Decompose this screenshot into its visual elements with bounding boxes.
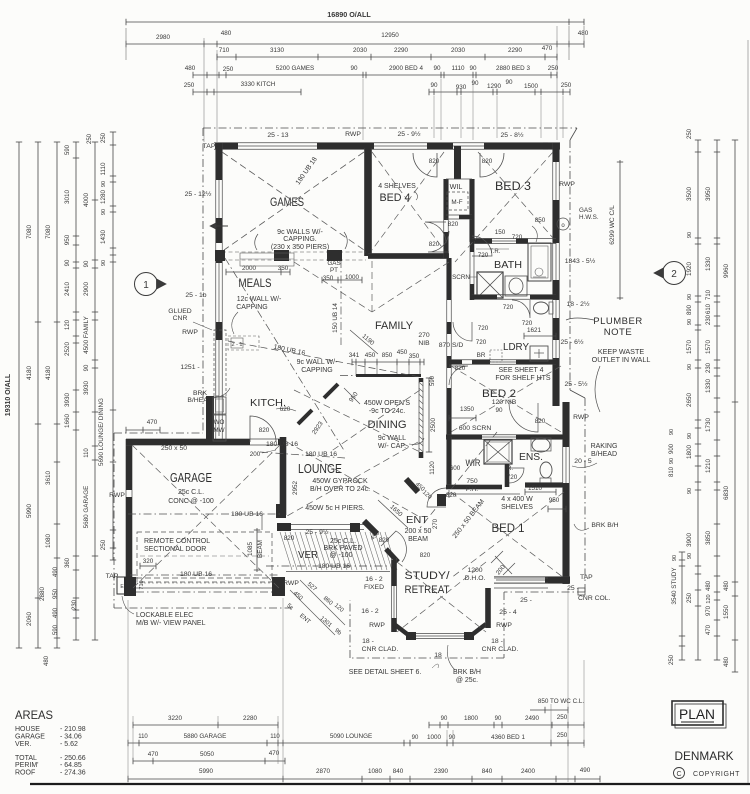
svg-text:9c WALL: 9c WALL (378, 435, 406, 442)
svg-text:19310 O/ALL: 19310 O/ALL (5, 373, 12, 416)
svg-text:25 - 8½: 25 - 8½ (500, 131, 523, 139)
svg-text:FIXED: FIXED (364, 584, 384, 591)
svg-text:PERIM': PERIM' (15, 762, 39, 769)
games diagonals (222, 152, 364, 250)
ent door arc (381, 531, 406, 562)
svg-text:2 - 1: 2 - 1 (231, 342, 242, 348)
svg-text:110: 110 (270, 734, 280, 740)
svg-text:3900: 3900 (686, 533, 693, 548)
svg-text:600: 600 (450, 465, 461, 472)
dim chain right 3540 STUDY 90 / 250 (681, 552, 683, 660)
svg-text:- 64.85: - 64.85 (60, 762, 82, 769)
svg-text:2980: 2980 (156, 34, 171, 41)
svg-text:SEE SHEET 4: SEE SHEET 4 (498, 367, 543, 374)
svg-text:820: 820 (455, 365, 466, 372)
svg-text:590: 590 (53, 624, 59, 635)
svg-text:2500: 2500 (430, 418, 437, 433)
svg-text:LDRY: LDRY (503, 342, 529, 353)
svg-text:870 S/D: 870 S/D (439, 342, 464, 349)
svg-text:90: 90 (669, 458, 675, 464)
dim 1650 rot (378, 500, 408, 528)
ver slab hatch (280, 532, 397, 570)
svg-text:1120: 1120 (429, 461, 436, 475)
svg-text:950: 950 (549, 497, 560, 504)
bed1 robe line (449, 493, 520, 495)
dim chain right 9960/6830/1550/480/480 (734, 140, 736, 672)
svg-text:610: 610 (706, 303, 712, 314)
svg-text:230: 230 (706, 314, 712, 325)
svg-text:490: 490 (53, 566, 59, 577)
svg-text:RWP: RWP (345, 131, 361, 138)
svg-text:350: 350 (323, 275, 334, 282)
ens door (509, 468, 524, 483)
svg-text:720: 720 (507, 474, 518, 481)
svg-text:820: 820 (448, 221, 459, 228)
ent pier lounge corner (364, 521, 377, 534)
svg-text:230: 230 (706, 362, 712, 373)
svg-text:810: 810 (669, 466, 675, 477)
svg-text:3010: 3010 (64, 190, 71, 205)
svg-text:1080: 1080 (368, 768, 383, 775)
svg-text:470: 470 (542, 45, 553, 52)
svg-text:250: 250 (100, 539, 107, 550)
dim bottom 110/5880 GARAGE/110/5090 LOUNGE/90/1000/90/4360 BED 1/250 (128, 742, 584, 744)
svg-text:840: 840 (393, 768, 404, 775)
svg-text:90: 90 (669, 429, 675, 435)
garage beam 180 UB 16 mid (128, 513, 281, 515)
svg-text:480: 480 (578, 30, 589, 37)
kitchen bench north (228, 336, 259, 350)
svg-text:25c C.L.: 25c C.L. (178, 489, 204, 496)
dim chain left 590/3010/950/90/2410/120/2520/3930/1660 (75, 142, 77, 640)
svg-text:710: 710 (706, 289, 712, 300)
dim 1621 (524, 335, 556, 337)
wall bed1 south (494, 576, 570, 578)
svg-text:VER: VER (298, 549, 318, 561)
svg-text:12950: 12950 (381, 32, 399, 39)
svg-text:ENT: ENT (406, 515, 428, 526)
svg-text:CNR CLAD.: CNR CLAD. (482, 646, 519, 653)
eaves outline (203, 127, 577, 129)
svg-text:820: 820 (429, 158, 440, 165)
svg-text:25 - 13: 25 - 13 (267, 132, 288, 139)
svg-text:25 - 1b: 25 - 1b (185, 292, 206, 299)
svg-text:180 UB 16: 180 UB 16 (180, 571, 212, 578)
svg-text:90: 90 (84, 364, 90, 371)
svg-text:3220: 3220 (168, 715, 183, 722)
svg-text:90: 90 (433, 65, 441, 72)
wall garage east (279, 437, 281, 515)
svg-text:90: 90 (505, 79, 513, 86)
svg-text:- 210.98: - 210.98 (60, 726, 86, 733)
family ceiling dashes (294, 262, 372, 312)
svg-text:2: 2 (671, 269, 677, 280)
svg-text:250: 250 (184, 82, 195, 89)
svg-text:620: 620 (280, 406, 291, 413)
svg-text:3500: 3500 (686, 187, 693, 202)
svg-text:REMOTE CONTROL: REMOTE CONTROL (144, 538, 210, 545)
svg-text:GARAGE: GARAGE (15, 734, 45, 741)
svg-text:90: 90 (84, 260, 90, 267)
svg-text:6830: 6830 (723, 486, 730, 501)
svg-text:12c WALL W/-: 12c WALL W/- (237, 296, 282, 303)
dim row 480/250/5200 GAMES/90/2900 BED 4/90/1110/90/2880 BED 3/250 (193, 74, 557, 76)
svg-text:1280: 1280 (100, 190, 107, 205)
lockable elec box (117, 577, 128, 594)
wc door (512, 300, 530, 318)
door bed3 top (480, 153, 504, 177)
svg-text:NOTE: NOTE (604, 327, 632, 338)
dim row 250/3330 KITCH and 90/930/90/1290/90/1500/250 (193, 91, 301, 93)
svg-text:230: 230 (72, 599, 78, 610)
svg-text:1800: 1800 (464, 715, 479, 722)
left wall arrow (210, 225, 228, 227)
svg-text:480: 480 (724, 656, 730, 667)
svg-text:850: 850 (382, 352, 393, 359)
svg-text:2650: 2650 (686, 393, 693, 408)
svg-text:2290: 2290 (508, 47, 523, 54)
wall wil west (443, 179, 445, 258)
svg-text:5880 GARAGE: 5880 GARAGE (184, 733, 227, 740)
svg-text:950: 950 (53, 588, 59, 599)
dining diagonals (294, 390, 420, 452)
svg-text:1330: 1330 (705, 379, 712, 394)
ldry door (453, 322, 472, 341)
svg-text:1: 1 (143, 280, 149, 291)
dim chain right 3950/1330/710/610/230/1570/230/1330/1730/1210/3850/480/120/970/470 (716, 140, 718, 660)
svg-text:-9c TO 24c.: -9c TO 24c. (369, 408, 405, 415)
svg-text:18 -: 18 - (362, 638, 374, 645)
svg-text:B/H OVER TO 24c.: B/H OVER TO 24c. (310, 486, 370, 493)
svg-text:90: 90 (687, 364, 693, 370)
svg-text:AREAS: AREAS (15, 708, 53, 722)
svg-text:25 -: 25 - (520, 597, 532, 604)
svg-text:1110: 1110 (451, 65, 465, 72)
dim bottom 470/5050/470 (133, 760, 285, 762)
wall study east (485, 588, 487, 628)
svg-text:450W GYPROCK: 450W GYPROCK (312, 478, 368, 485)
svg-text:VER.: VER. (15, 741, 31, 748)
wil m-f box (447, 192, 468, 210)
svg-text:90: 90 (65, 259, 71, 266)
svg-text:7080: 7080 (26, 225, 33, 240)
dim 470 garage top (126, 429, 160, 431)
svg-text:2520: 2520 (64, 342, 71, 357)
kitchen wo mw (213, 415, 226, 441)
svg-text:3850: 3850 (705, 531, 712, 546)
svg-text:2870: 2870 (316, 768, 331, 775)
svg-text:590: 590 (65, 144, 71, 155)
plan denmark title block (672, 701, 723, 725)
svg-text:ENS.: ENS. (519, 451, 543, 463)
wall exterior top (214, 142, 560, 144)
svg-text:490: 490 (580, 767, 591, 774)
svg-text:CAPPING.: CAPPING. (283, 236, 317, 243)
svg-text:1843 - 5½: 1843 - 5½ (565, 257, 596, 265)
svg-text:5200 GAMES: 5200 GAMES (276, 65, 315, 72)
svg-text:25c C.L.: 25c C.L. (330, 538, 356, 545)
wall bed3 south / bath north (472, 238, 556, 240)
lounge diagonals (287, 442, 418, 516)
svg-text:90: 90 (469, 65, 477, 72)
svg-text:20 - 5: 20 - 5 (574, 458, 592, 465)
door bed2 east (509, 403, 538, 432)
svg-text:1500: 1500 (524, 83, 539, 90)
svg-text:1080: 1080 (45, 534, 52, 549)
svg-text:4 x 400 W: 4 x 400 W (501, 496, 533, 503)
wall bath west (469, 241, 471, 300)
svg-text:90: 90 (687, 553, 693, 559)
svg-text:3610: 3610 (45, 471, 52, 486)
svg-text:SEE DETAIL SHEET 6.: SEE DETAIL SHEET 6. (349, 669, 422, 676)
svg-text:90: 90 (449, 735, 456, 741)
svg-text:90: 90 (350, 65, 358, 72)
svg-text:1085: 1085 (247, 542, 254, 557)
svg-text:BED 3: BED 3 (495, 181, 531, 193)
svg-text:DENMARK: DENMARK (675, 749, 734, 763)
svg-text:250: 250 (561, 82, 572, 89)
svg-text:490: 490 (53, 607, 59, 618)
ver edges (286, 571, 390, 573)
svg-text:2880 BED 3: 2880 BED 3 (496, 65, 530, 72)
wall wil bottom (446, 214, 472, 216)
dim chain right 250/3500/90/1920/90/890/90/1570/90/2650/90/900/810/90/3900/250 (697, 140, 699, 660)
svg-text:110: 110 (84, 448, 90, 458)
svg-text:90: 90 (412, 735, 419, 741)
ens shower (484, 440, 512, 464)
svg-text:120: 120 (706, 594, 712, 603)
svg-text:CONC @ -100: CONC @ -100 (168, 498, 214, 505)
svg-text:RWP: RWP (573, 414, 589, 421)
svg-text:BR: BR (477, 352, 486, 359)
wall lounge south (280, 524, 364, 526)
bath shower (477, 272, 503, 298)
svg-text:M-F: M-F (451, 199, 462, 206)
node 2 marker (663, 262, 686, 285)
svg-text:90: 90 (441, 716, 448, 722)
svg-text:9960: 9960 (723, 264, 730, 279)
svg-text:890: 890 (687, 304, 693, 315)
svg-text:150: 150 (495, 229, 506, 236)
svg-text:2280: 2280 (243, 715, 258, 722)
svg-text:720: 720 (478, 325, 489, 332)
svg-text:BATH: BATH (494, 259, 522, 271)
node 1 marker (135, 273, 158, 296)
svg-text:2952: 2952 (292, 481, 299, 496)
dim chain left 7080/4180/3610/1080/2880 (56, 142, 58, 648)
svg-text:BRK: BRK (193, 390, 207, 397)
svg-text:250: 250 (687, 128, 693, 139)
svg-text:180 UB 16: 180 UB 16 (318, 563, 350, 570)
ver beam 180 ub 16 (266, 565, 390, 567)
svg-text:- 5.62: - 5.62 (60, 741, 78, 748)
kitchen pantry box (213, 397, 226, 414)
beam 180 ub 16 shallow (228, 341, 420, 377)
dim 2000/350 meals (226, 271, 290, 273)
svg-text:1730: 1730 (705, 418, 712, 433)
svg-text:1110: 1110 (100, 162, 107, 176)
svg-text:5090 LOUNGE: 5090 LOUNGE (330, 733, 372, 740)
svg-text:5050: 5050 (200, 751, 215, 758)
wall study corners angled (394, 624, 411, 637)
svg-text:200 x 50: 200 x 50 (405, 528, 432, 535)
wall games/bed4 (364, 148, 366, 256)
svg-text:C: C (676, 771, 681, 778)
svg-text:720: 720 (478, 252, 489, 259)
svg-text:2400: 2400 (521, 768, 536, 775)
kitchen door garage (250, 416, 276, 442)
svg-text:RWP: RWP (559, 181, 575, 188)
svg-text:R.: R. (507, 466, 513, 472)
svg-text:PLUMBER: PLUMBER (593, 316, 642, 327)
svg-text:710: 710 (139, 580, 145, 589)
dim 6299 WC C/L vertical (619, 160, 621, 300)
svg-text:GAS: GAS (327, 260, 340, 267)
svg-text:2410: 2410 (64, 282, 71, 297)
svg-text:FAMILY: FAMILY (375, 320, 414, 332)
svg-text:LOCKABLE ELEC: LOCKABLE ELEC (136, 612, 193, 619)
svg-text:1920: 1920 (686, 262, 693, 277)
wall garage top (126, 438, 286, 440)
svg-text:25 -: 25 - (567, 585, 579, 592)
wall exterior right lower (562, 402, 564, 584)
wall games south pier line (222, 251, 366, 253)
svg-text:1330: 1330 (705, 257, 712, 272)
svg-text:270: 270 (433, 518, 439, 529)
svg-text:NIB: NIB (418, 340, 430, 347)
svg-text:2030: 2030 (451, 47, 466, 54)
svg-text:5690 LOUNGE/ DINING: 5690 LOUNGE/ DINING (98, 398, 105, 466)
svg-text:930: 930 (456, 84, 467, 91)
svg-text:1570: 1570 (705, 340, 712, 355)
svg-text:WO: WO (214, 419, 225, 426)
svg-text:25 - 5½: 25 - 5½ (564, 380, 587, 388)
svg-text:120: 120 (65, 319, 71, 330)
hall bed1 corner block (437, 494, 446, 506)
svg-text:1550: 1550 (723, 605, 730, 620)
garage diagonals (132, 445, 280, 589)
svg-text:- 250.66: - 250.66 (60, 755, 86, 762)
dim bottom 5990/2870/1080/840/2390/840/2400/490 (128, 778, 600, 780)
wall exterior left (215, 143, 217, 440)
svg-text:900: 900 (669, 443, 675, 454)
svg-text:3130: 3130 (270, 47, 285, 54)
svg-text:CNR COL.: CNR COL. (578, 595, 611, 602)
svg-text:CNR: CNR (173, 315, 188, 322)
svg-text:250: 250 (548, 65, 559, 72)
svg-text:450W 5c H PIERS.: 450W 5c H PIERS. (305, 505, 365, 512)
svg-text:90: 90 (101, 181, 107, 187)
svg-text:RWP: RWP (283, 580, 299, 587)
extension lines bottom (127, 600, 129, 782)
svg-text:3930: 3930 (64, 393, 71, 408)
svg-text:CNR CLAD.: CNR CLAD. (362, 646, 399, 653)
wall ens mid (504, 464, 506, 487)
svg-text:820: 820 (535, 418, 546, 425)
svg-text:450W OPEN'S: 450W OPEN'S (364, 400, 410, 407)
svg-text:RWP: RWP (369, 622, 385, 629)
svg-text:PLAN: PLAN (679, 706, 715, 722)
svg-text:W/- CAP.: W/- CAP. (378, 443, 406, 450)
svg-text:970: 970 (706, 605, 712, 616)
svg-text:BEAM: BEAM (408, 536, 428, 543)
svg-text:90: 90 (430, 82, 438, 89)
svg-text:5990: 5990 (26, 504, 33, 519)
svg-text:9c WALLS W/-: 9c WALLS W/- (277, 229, 323, 236)
wall garage west (125, 439, 127, 595)
beam 180 ub 16 lounge (260, 452, 345, 458)
svg-text:HOUSE: HOUSE (15, 726, 40, 733)
garage door opening lines (136, 577, 272, 579)
bath door (472, 236, 492, 256)
svg-text:4000: 4000 (83, 193, 90, 208)
svg-text:6299 WC C/L: 6299 WC C/L (609, 205, 616, 245)
svg-text:720: 720 (503, 304, 514, 311)
study diagonals (397, 562, 486, 632)
svg-text:1000: 1000 (427, 734, 442, 741)
svg-text:18 -: 18 - (491, 638, 503, 645)
wall garage south corners (124, 577, 136, 596)
dim chain left 4000/90/2900/4500 FAMILY/90/110/5680 GARAGE (94, 142, 96, 640)
wall wil east (469, 179, 471, 242)
svg-text:480: 480 (724, 580, 730, 591)
wall wil top (446, 178, 472, 180)
door bed4 lower (425, 222, 446, 243)
svg-text:5680 GARAGE: 5680 GARAGE (83, 486, 90, 529)
svg-text:250: 250 (223, 66, 234, 73)
wall wir west (446, 437, 448, 489)
svg-text:710: 710 (219, 47, 230, 54)
svg-text:16 - 2: 16 - 2 (361, 608, 379, 615)
pier lounge west (276, 504, 286, 518)
dim cluster family south (352, 361, 424, 363)
svg-text:470: 470 (148, 751, 159, 758)
ens vanity (532, 438, 550, 452)
svg-text:250: 250 (87, 133, 93, 144)
svg-text:FOR SHELF HTS: FOR SHELF HTS (495, 375, 551, 382)
wall bath south / wc (472, 294, 556, 296)
svg-text:B/HEAD: B/HEAD (591, 451, 617, 458)
garage door dashed (137, 532, 272, 582)
svg-text:820: 820 (420, 552, 431, 559)
svg-text:1800: 1800 (686, 445, 693, 460)
svg-text:- 34.06: - 34.06 (60, 734, 82, 741)
svg-text:90: 90 (495, 407, 503, 414)
wall bed4 south (368, 253, 449, 255)
bed4 diagonals (372, 152, 444, 250)
svg-text:840: 840 (482, 768, 493, 775)
svg-text:RWP: RWP (182, 329, 198, 336)
dim chain left 250/1110/90/1280/90/1430/90/5690 LOUNGE DINING/250 (112, 132, 114, 560)
svg-text:18 - 2½: 18 - 2½ (566, 300, 589, 308)
svg-text:360: 360 (65, 557, 71, 568)
svg-text:320: 320 (143, 558, 154, 565)
svg-text:25 - 6½: 25 - 6½ (560, 338, 583, 346)
label 150 ub 14 (340, 260, 342, 345)
svg-text:590: 590 (430, 375, 436, 386)
svg-text:(230 x 350 PIERS): (230 x 350 PIERS) (271, 244, 329, 251)
svg-text:16 - 2: 16 - 2 (365, 576, 383, 583)
svg-text:SCRN: SCRN (452, 274, 470, 281)
dim 1510 (525, 491, 556, 493)
dim row 710/3130/2030/2290/2030/2290/470 (217, 56, 557, 58)
dim row 2980/480/12950/480 (126, 43, 584, 45)
svg-text:1290: 1290 (487, 83, 502, 90)
svg-text:1570: 1570 (686, 340, 693, 355)
svg-text:250: 250 (687, 592, 693, 603)
wall ens south (525, 482, 563, 484)
svg-text:250: 250 (557, 714, 568, 721)
